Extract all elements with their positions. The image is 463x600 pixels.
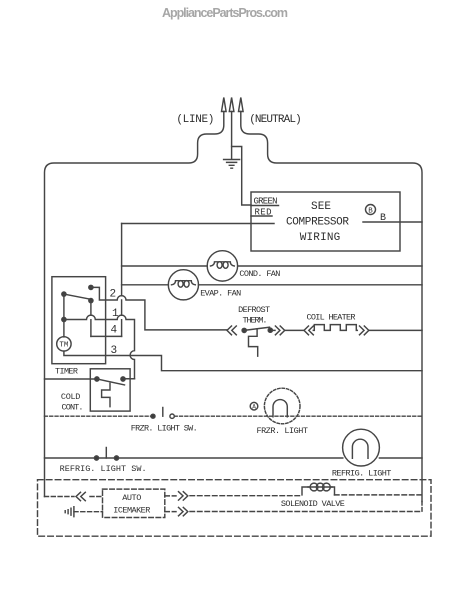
switch blade timer cam — [64, 294, 91, 299]
filament freezer light — [273, 400, 287, 417]
timer motor TM — [57, 337, 71, 351]
timer box — [52, 277, 106, 364]
plug prong arrow LINE — [222, 98, 227, 112]
switch blade cold control — [97, 379, 125, 385]
svg-text:REFRIG. LIGHT SW.: REFRIG. LIGHT SW. — [60, 464, 147, 474]
wire dashed neutral edge stub to lower line — [421, 502, 423, 512]
connector chevrons coil heater right — [360, 326, 369, 335]
wire cold control right dot to terminal 1 riser — [123, 378, 135, 380]
connector chevrons coil heater left — [304, 326, 313, 335]
wire refrigerator light circuit — [45, 457, 423, 459]
wire heater to neutral edge — [369, 329, 422, 331]
wire line feed to cold control — [45, 378, 97, 380]
svg-text:AUTO: AUTO — [122, 493, 141, 503]
svg-text:WIRING: WIRING — [300, 232, 341, 244]
wire dashed icemaker ground lead — [74, 511, 103, 513]
connector chevrons defrost thermostat left — [227, 326, 236, 335]
svg-text:ICEMAKER: ICEMAKER — [113, 505, 150, 515]
svg-text:TM: TM — [59, 342, 68, 350]
svg-text:(NEUTRAL): (NEUTRAL) — [249, 114, 302, 126]
wire dashed freezer light circuit — [45, 415, 423, 417]
junction dot C timer contact (terminal 4 path) — [89, 299, 93, 303]
svg-text:COMPRESSOR: COMPRESSOR — [286, 217, 349, 229]
wire evap fan line — [122, 284, 422, 286]
plug prong arrow ground — [229, 98, 234, 112]
wire compressor B terminal to neutral side — [363, 221, 422, 223]
node B circled terminal — [366, 205, 376, 215]
svg-text:COLD: COLD — [61, 392, 81, 402]
wire dashed line feed to icemaker — [45, 496, 103, 498]
wire pivot B down to motor tap D — [63, 294, 65, 337]
svg-text:THERM.: THERM. — [243, 315, 268, 325]
wire therm to heater — [272, 329, 304, 331]
lamp refrigerator light — [343, 429, 380, 466]
wire timer terminal 3 from motor to neutral side — [64, 351, 422, 371]
switch blade defrost thermostat — [244, 327, 269, 330]
svg-text:FRZR. LIGHT SW.: FRZR. LIGHT SW. — [131, 423, 198, 433]
switch freezer light SW — [151, 414, 155, 418]
connector chevrons icemaker right top — [179, 492, 188, 500]
svg-text:SOLENOID VALVE: SOLENOID VALVE — [281, 499, 345, 509]
wire timer contact C down to terminal 4 line — [90, 301, 92, 337]
junction dot defrost therm right — [268, 328, 272, 332]
wire red lead: bus top from compressor to timer bus — [122, 223, 274, 225]
wire vertical bus (timer terminal 4 to red/fan lines) — [121, 224, 123, 337]
svg-text:REFRIG. LIGHT: REFRIG. LIGHT — [332, 469, 392, 479]
svg-text:(LINE): (LINE) — [176, 114, 214, 126]
solenoid valve coil — [302, 487, 310, 495]
ground symbol icemaker — [65, 507, 74, 517]
svg-text:2: 2 — [110, 289, 117, 301]
wire NEUTRAL power lead with cabinet outline right side — [241, 112, 422, 502]
enclosure freezer compartment dashed boundary — [38, 480, 432, 537]
filament refrigerator light — [352, 439, 368, 458]
svg-text:EVAP. FAN: EVAP. FAN — [200, 289, 241, 299]
svg-text:AppliancePartsPros.com: AppliancePartsPros.com — [162, 6, 288, 20]
connector chevrons icemaker right bottom — [179, 507, 188, 515]
wire LINE power lead with cabinet outline left side — [45, 112, 224, 497]
svg-text:4: 4 — [111, 325, 118, 337]
compressor box U1 SEE COMPRESSOR WIRING — [251, 192, 400, 251]
junction dot defrost therm left — [242, 328, 246, 332]
wire cond fan line — [122, 265, 422, 267]
wire ground prong lead — [231, 112, 233, 160]
junction dot cold control right — [121, 377, 125, 381]
cold control box — [90, 369, 130, 411]
svg-text:TIMER: TIMER — [55, 367, 78, 377]
junction dot B timer pivot — [62, 292, 66, 296]
bellows element cold control — [102, 383, 110, 406]
motor condenser fan — [207, 251, 237, 281]
plug prong arrow NEUTRAL — [239, 98, 244, 112]
svg-text:DEFROST: DEFROST — [238, 305, 270, 315]
svg-text:SEE: SEE — [311, 201, 331, 213]
ground symbol earth — [224, 160, 240, 169]
node A circled — [250, 402, 258, 410]
junction dot A timer contact (terminal 2) — [89, 285, 93, 289]
bimetal element defrost thermostat — [249, 329, 258, 356]
wire timer terminal 4 line to bus — [91, 335, 122, 337]
motor evaporator fan — [168, 270, 198, 300]
lamp freezer light (dashed bulb) — [264, 388, 300, 424]
svg-text:3: 3 — [111, 345, 118, 357]
svg-text:CONT.: CONT. — [62, 403, 84, 413]
icemaker box dashed — [103, 489, 165, 517]
junction dot cold control left — [95, 377, 99, 381]
wire dashed icemaker lower output — [165, 511, 422, 513]
wire green lead to compressor box — [232, 147, 251, 206]
resistor defrost coil heater element — [313, 325, 357, 331]
connector chevrons icemaker left — [76, 492, 85, 500]
connector chevrons defrost thermostat right — [275, 326, 284, 335]
svg-text:COIL HEATER: COIL HEATER — [307, 312, 356, 322]
svg-text:B: B — [368, 207, 373, 215]
junction dot D timer motor tap — [62, 317, 66, 321]
wire dashed icemaker output to solenoid — [165, 495, 422, 496]
svg-text:A: A — [252, 404, 256, 411]
wire timer terminal 1 lead with jumps, down to cold control — [64, 315, 135, 379]
svg-text:1: 1 — [112, 308, 119, 320]
wire timer terminal 2 lead with jump over bus — [91, 287, 227, 330]
svg-text:FRZR. LIGHT: FRZR. LIGHT — [257, 426, 309, 436]
svg-text:COND. FAN: COND. FAN — [239, 269, 280, 279]
switch refrigerator light SW — [94, 456, 98, 460]
